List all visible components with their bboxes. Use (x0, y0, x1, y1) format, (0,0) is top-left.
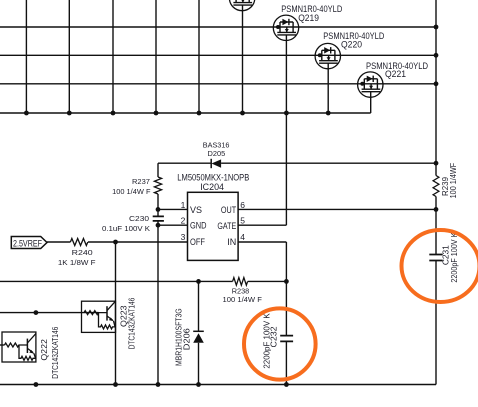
wire D206 top (198, 281, 200, 331)
wire IN vertical (285, 242, 287, 336)
IC op U IC204 box (177, 173, 249, 261)
svg-text:IC204: IC204 (200, 182, 224, 193)
wire D206 bottom (198, 343, 200, 385)
transistor Q218 partial top (229, 0, 254, 113)
wire flag to R240 (47, 241, 70, 243)
svg-text:2200pF 100V K: 2200pF 100V K (263, 313, 272, 369)
svg-text:Q222: Q222 (40, 339, 49, 361)
capacitor C231 (429, 232, 459, 283)
transistor Q222 (0, 326, 60, 378)
wire grid vertical 2 (68, 0, 70, 113)
svg-text:1K 1/8W F: 1K 1/8W F (58, 258, 96, 267)
svg-text:BAS316: BAS316 (203, 140, 230, 149)
junction dots top rail (24, 111, 331, 116)
wire grid vertical 1 (25, 0, 27, 113)
junction dots middle (34, 207, 289, 315)
svg-text:R240: R240 (72, 248, 93, 257)
junction dots right rail (434, 25, 439, 212)
svg-text:2200pF 100V K: 2200pF 100V K (450, 232, 459, 283)
wire C230 down (157, 221, 159, 385)
diode D206 MBR1H100SFT3G (175, 308, 204, 366)
svg-text:D206: D206 (183, 328, 192, 351)
svg-text:100 1/4W F: 100 1/4W F (112, 187, 151, 196)
wire right rail mid (435, 197, 437, 255)
svg-text:GATE: GATE (217, 221, 236, 232)
svg-text:2.5VREF: 2.5VREF (13, 238, 42, 249)
svg-text:Q219: Q219 (298, 13, 319, 23)
svg-text:DTC143ZKAT146: DTC143ZKAT146 (128, 297, 137, 349)
svg-text:OUT: OUT (221, 205, 236, 216)
transistor Q220 (315, 31, 385, 113)
net flag 2.5VREF (11, 237, 47, 250)
transistor Q223 (82, 297, 137, 349)
svg-text:100 1/4WF: 100 1/4WF (449, 163, 458, 199)
pin 3 (88, 232, 188, 242)
svg-text:GND: GND (190, 220, 207, 231)
transistor Q219 (273, 4, 342, 113)
wire grid vertical 4 (155, 0, 157, 113)
svg-text:3: 3 (181, 232, 186, 242)
wire bottom rail (0, 384, 436, 386)
wire grid vertical 5 (198, 0, 200, 113)
svg-text:R237: R237 (132, 177, 150, 186)
svg-text:0.1uF 100V K: 0.1uF 100V K (102, 224, 150, 233)
svg-text:C230: C230 (129, 214, 149, 223)
pin 4 (238, 232, 286, 242)
svg-text:100 1/4W F: 100 1/4W F (223, 295, 263, 304)
highlight ring C232 (244, 308, 316, 379)
svg-text:1: 1 (181, 200, 186, 210)
svg-text:Q221: Q221 (385, 69, 406, 79)
svg-text:4: 4 (240, 232, 245, 242)
resistor R239 (433, 163, 458, 199)
svg-text:6: 6 (240, 200, 245, 210)
svg-text:DTC143ZKAT146: DTC143ZKAT146 (51, 326, 60, 378)
wire gate rail (0, 112, 371, 114)
pin 2 (158, 216, 188, 226)
wire Q223 base line (0, 312, 99, 314)
transistor Q221 (358, 61, 429, 113)
highlight ring C231 (402, 230, 478, 302)
diode D205 BAS316 (203, 140, 230, 168)
svg-text:5: 5 (240, 216, 245, 226)
svg-text:D205: D205 (208, 149, 226, 158)
pin 6 (238, 200, 436, 210)
svg-text:VS: VS (190, 205, 202, 216)
wire R238 line right (248, 280, 287, 282)
wire Q221 drain line (0, 83, 436, 85)
wire grid vertical 3 (112, 0, 114, 113)
wire Q223 collector line (115, 242, 117, 385)
wire C232 down (285, 341, 287, 384)
wire Q219 drain line (0, 26, 436, 28)
svg-text:OFF: OFF (190, 237, 205, 248)
capacitor C230 (102, 214, 164, 233)
capacitor C232 (263, 313, 294, 369)
diode D205 line (158, 162, 436, 164)
pin 5 (238, 216, 286, 226)
pin 1 (158, 200, 188, 210)
resistor R237 (112, 163, 162, 216)
wire Q220 drain line (0, 54, 436, 56)
resistor R238 (223, 278, 263, 304)
junction dots bottom rail (34, 382, 289, 387)
wire gate vertical (285, 113, 287, 225)
resistor R240 (58, 239, 96, 267)
wire right rail bottom (435, 261, 437, 385)
wire right rail top (435, 0, 437, 176)
svg-text:IN: IN (227, 237, 236, 248)
svg-text:Q220: Q220 (341, 40, 362, 50)
svg-text:2: 2 (181, 216, 186, 226)
wire R238 line left (0, 280, 233, 282)
